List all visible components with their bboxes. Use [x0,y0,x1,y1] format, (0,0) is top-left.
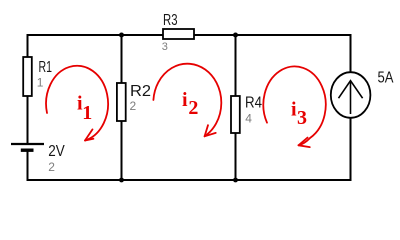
svg-text:1: 1 [82,102,92,124]
svg-text:2: 2 [188,97,198,119]
svg-text:2V: 2V [48,143,65,160]
svg-text:2: 2 [130,99,137,113]
svg-text:4: 4 [245,112,252,126]
svg-text:R3: R3 [163,12,178,29]
svg-text:3: 3 [162,41,168,53]
svg-text:R1: R1 [39,59,53,76]
svg-text:3: 3 [297,107,307,129]
svg-text:R4: R4 [245,94,262,111]
svg-text:1: 1 [37,75,44,89]
svg-text:5A: 5A [378,69,394,86]
svg-text:R2: R2 [130,83,151,100]
svg-text:2: 2 [48,160,55,174]
svg-text:i: i [182,89,188,111]
